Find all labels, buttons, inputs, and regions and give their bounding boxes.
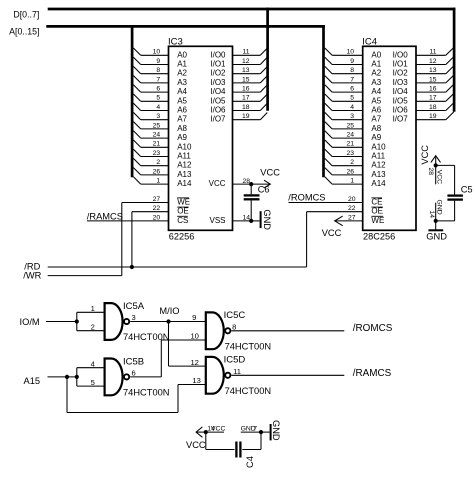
- svg-text:A4: A4: [177, 87, 187, 96]
- svg-text:A13: A13: [371, 170, 386, 179]
- svg-text:I/O0: I/O0: [210, 50, 226, 59]
- svg-text:17: 17: [429, 95, 437, 102]
- svg-text:17: 17: [242, 95, 250, 102]
- svg-text:A6: A6: [371, 106, 381, 115]
- svg-text:A9: A9: [371, 133, 381, 142]
- svg-text:GND: GND: [262, 209, 272, 230]
- svg-text:GND: GND: [426, 232, 447, 242]
- svg-text:I/O5: I/O5: [210, 96, 226, 105]
- svg-text:1: 1: [156, 178, 160, 185]
- svg-text:9: 9: [192, 313, 196, 322]
- svg-text:VCC: VCC: [435, 170, 442, 184]
- svg-text:CS: CS: [177, 216, 188, 225]
- svg-text:28C256: 28C256: [363, 232, 395, 242]
- svg-text:2: 2: [350, 159, 354, 166]
- svg-text:25: 25: [153, 122, 161, 129]
- svg-text:A7: A7: [177, 115, 187, 124]
- svg-text:16: 16: [429, 86, 437, 93]
- svg-text:12: 12: [242, 58, 250, 65]
- svg-text:27: 27: [348, 214, 356, 221]
- svg-text:IC5D: IC5D: [224, 355, 246, 366]
- svg-text:3: 3: [132, 313, 136, 322]
- svg-text:12: 12: [190, 358, 198, 367]
- svg-text:3: 3: [156, 113, 160, 120]
- svg-text:9: 9: [156, 58, 160, 65]
- svg-text:A12: A12: [371, 161, 386, 170]
- svg-text:8: 8: [350, 67, 354, 74]
- svg-text:C6: C6: [258, 185, 270, 195]
- svg-text:OE: OE: [177, 207, 189, 216]
- svg-text:I/O1: I/O1: [393, 60, 409, 69]
- svg-text:26: 26: [346, 168, 354, 175]
- svg-text:C5: C5: [461, 185, 473, 195]
- svg-text:23: 23: [153, 150, 161, 157]
- svg-text:74HCT00N: 74HCT00N: [225, 386, 272, 396]
- svg-text:I/O2: I/O2: [210, 69, 226, 78]
- svg-text:M/IO: M/IO: [159, 306, 179, 316]
- svg-text:VCC: VCC: [209, 179, 226, 188]
- svg-text:VCC: VCC: [260, 168, 280, 178]
- svg-text:I/O7: I/O7: [393, 115, 409, 124]
- svg-text:A[0..15]: A[0..15]: [9, 26, 39, 36]
- svg-text:IC5C: IC5C: [224, 310, 246, 321]
- svg-text:I/O4: I/O4: [210, 87, 226, 96]
- svg-text:VCC: VCC: [420, 145, 430, 165]
- svg-text:4: 4: [91, 360, 95, 369]
- svg-text:VCC: VCC: [211, 426, 225, 433]
- svg-text:5: 5: [91, 378, 95, 387]
- svg-text:I/O3: I/O3: [393, 78, 409, 87]
- svg-text:A8: A8: [371, 124, 381, 133]
- svg-text:A12: A12: [177, 161, 192, 170]
- svg-text:WE: WE: [371, 216, 384, 225]
- svg-text:IO/M: IO/M: [20, 317, 40, 327]
- svg-text:74HCT00N: 74HCT00N: [123, 332, 170, 342]
- svg-text:A14: A14: [371, 179, 386, 188]
- svg-text:19: 19: [429, 113, 437, 120]
- svg-text:GND: GND: [271, 420, 281, 441]
- svg-text:13: 13: [242, 67, 250, 74]
- svg-text:7: 7: [156, 76, 160, 83]
- svg-text:A8: A8: [177, 124, 187, 133]
- svg-text:26: 26: [153, 168, 161, 175]
- svg-text:8: 8: [232, 323, 236, 332]
- svg-text:/RAMCS: /RAMCS: [87, 211, 123, 221]
- svg-text:/ROMCS: /ROMCS: [353, 323, 393, 334]
- svg-text:23: 23: [346, 150, 354, 157]
- svg-text:A6: A6: [177, 106, 187, 115]
- svg-text:11: 11: [429, 49, 436, 56]
- svg-text:/ROMCS: /ROMCS: [288, 192, 325, 202]
- svg-text:A2: A2: [371, 69, 381, 78]
- svg-text:A0: A0: [371, 50, 381, 59]
- svg-text:25: 25: [346, 122, 354, 129]
- svg-text:D[0..7]: D[0..7]: [13, 9, 39, 19]
- svg-text:18: 18: [242, 104, 250, 111]
- svg-text:I/O6: I/O6: [393, 106, 409, 115]
- svg-text:IC5A: IC5A: [123, 301, 145, 312]
- svg-text:21: 21: [346, 141, 354, 148]
- svg-text:A7: A7: [371, 115, 381, 124]
- svg-text:A10: A10: [371, 142, 386, 151]
- svg-text:A4: A4: [371, 87, 381, 96]
- svg-text:C4: C4: [245, 456, 255, 468]
- svg-text:A2: A2: [177, 69, 187, 78]
- svg-text:VCC: VCC: [322, 228, 342, 238]
- svg-text:2: 2: [156, 159, 160, 166]
- svg-text:19: 19: [242, 113, 250, 120]
- svg-text:VCC: VCC: [186, 440, 206, 450]
- svg-text:14: 14: [428, 211, 435, 219]
- svg-text:24: 24: [346, 132, 354, 139]
- svg-text:18: 18: [429, 104, 437, 111]
- svg-text:4: 4: [156, 104, 160, 111]
- svg-text:27: 27: [153, 196, 161, 203]
- svg-text:A1: A1: [177, 60, 187, 69]
- svg-text:A0: A0: [177, 50, 187, 59]
- svg-text:/RAMCS: /RAMCS: [353, 368, 392, 379]
- svg-text:74HCT00N: 74HCT00N: [225, 342, 272, 352]
- svg-text:A3: A3: [371, 78, 381, 87]
- svg-text:WE: WE: [177, 198, 190, 207]
- svg-text:5: 5: [156, 95, 160, 102]
- svg-text:IC4: IC4: [362, 36, 377, 47]
- svg-text:A11: A11: [371, 152, 385, 161]
- svg-text:CE: CE: [371, 198, 382, 207]
- svg-text:28: 28: [427, 168, 434, 176]
- svg-text:22: 22: [348, 205, 356, 212]
- svg-text:6: 6: [132, 369, 136, 378]
- svg-text:8: 8: [156, 67, 160, 74]
- svg-text:A5: A5: [177, 96, 187, 105]
- svg-text:13: 13: [192, 376, 200, 385]
- svg-text:I/O7: I/O7: [210, 115, 226, 124]
- svg-text:7: 7: [253, 426, 257, 433]
- svg-text:20: 20: [348, 196, 356, 203]
- svg-text:10: 10: [346, 49, 354, 56]
- svg-text:28: 28: [242, 178, 250, 185]
- svg-text:A15: A15: [24, 376, 41, 386]
- svg-text:7: 7: [350, 76, 354, 83]
- svg-text:6: 6: [350, 86, 354, 93]
- svg-text:12: 12: [429, 58, 437, 65]
- svg-text:A14: A14: [177, 179, 192, 188]
- svg-text:OE: OE: [371, 207, 383, 216]
- svg-text:A13: A13: [177, 170, 192, 179]
- svg-text:14: 14: [242, 215, 250, 222]
- svg-text:A10: A10: [177, 142, 192, 151]
- svg-text:I/O2: I/O2: [393, 69, 409, 78]
- svg-text:I/O0: I/O0: [393, 50, 409, 59]
- svg-text:15: 15: [242, 76, 250, 83]
- svg-text:15: 15: [429, 76, 437, 83]
- svg-text:2: 2: [91, 323, 95, 332]
- svg-text:1: 1: [91, 304, 95, 313]
- svg-text:20: 20: [153, 214, 161, 221]
- svg-text:10: 10: [153, 49, 161, 56]
- svg-text:A9: A9: [177, 133, 187, 142]
- svg-text:16: 16: [242, 86, 250, 93]
- svg-text:13: 13: [429, 67, 437, 74]
- svg-text:I/O1: I/O1: [210, 60, 226, 69]
- svg-text:74HCT00N: 74HCT00N: [123, 388, 170, 398]
- svg-text:10: 10: [190, 332, 198, 341]
- svg-text:IC5B: IC5B: [123, 356, 144, 367]
- svg-text:IC3: IC3: [168, 36, 183, 47]
- svg-text:62256: 62256: [169, 232, 195, 242]
- svg-text:3: 3: [350, 113, 354, 120]
- svg-text:I/O6: I/O6: [210, 106, 226, 115]
- svg-text:GND: GND: [435, 200, 442, 215]
- svg-text:A11: A11: [177, 152, 191, 161]
- svg-text:1: 1: [350, 178, 354, 185]
- svg-text:21: 21: [153, 141, 161, 148]
- svg-text:11: 11: [242, 49, 249, 56]
- svg-text:4: 4: [350, 104, 354, 111]
- svg-text:I/O3: I/O3: [210, 78, 226, 87]
- svg-text:VSS: VSS: [209, 216, 225, 225]
- svg-text:/WR: /WR: [23, 271, 41, 281]
- svg-text:I/O5: I/O5: [393, 96, 409, 105]
- svg-text:I/O4: I/O4: [393, 87, 409, 96]
- svg-text:A5: A5: [371, 96, 381, 105]
- svg-text:22: 22: [153, 205, 161, 212]
- svg-text:6: 6: [156, 86, 160, 93]
- svg-text:9: 9: [350, 58, 354, 65]
- svg-text:24: 24: [153, 132, 161, 139]
- svg-text:A3: A3: [177, 78, 187, 87]
- svg-text:5: 5: [350, 95, 354, 102]
- svg-text:11: 11: [233, 367, 241, 376]
- svg-text:A1: A1: [371, 60, 381, 69]
